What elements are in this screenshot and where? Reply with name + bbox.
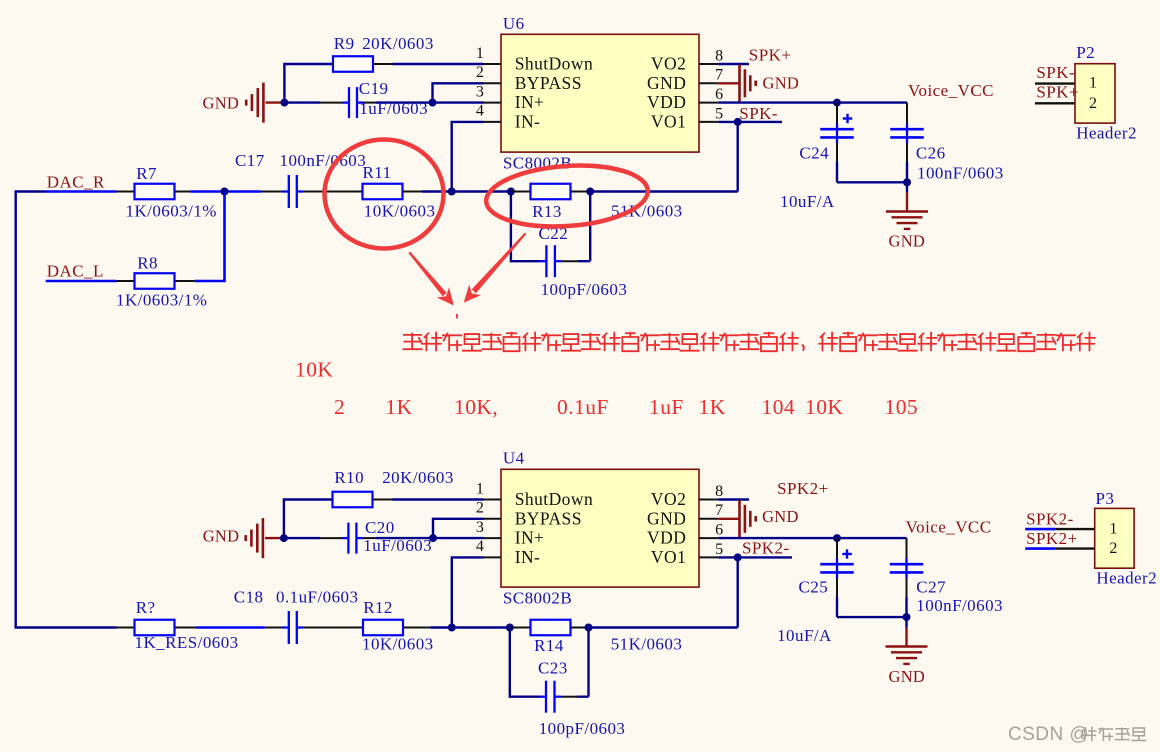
U4 pin 1: [484, 499, 502, 501]
svg-text:10K: 10K: [295, 358, 333, 382]
svg-text:DAC_R: DAC_R: [47, 172, 105, 191]
svg-text:1K/0603/1%: 1K/0603/1%: [116, 291, 207, 310]
resistor R11: [363, 184, 403, 200]
capacitor C26: [906, 103, 908, 124]
svg-text:CSDN @: CSDN @: [1008, 724, 1089, 745]
svg-text:1uF/0603: 1uF/0603: [363, 536, 432, 555]
wire R9 to pin1: [393, 63, 484, 65]
svg-text:10K: 10K: [805, 395, 843, 419]
svg-text:8: 8: [715, 483, 723, 500]
svg-text:C17: C17: [235, 151, 265, 170]
svg-text:1K: 1K: [385, 395, 412, 419]
IC U6 SC8002B: [501, 34, 699, 152]
node main-R7: [221, 188, 229, 196]
svg-text:4: 4: [476, 103, 484, 120]
svg-text:100nF/0603: 100nF/0603: [916, 596, 1003, 615]
wire cap bottoms: [837, 181, 907, 183]
U6 pin 8: [699, 63, 718, 65]
U6 pin 2: [484, 82, 502, 84]
earth ground GND (bottom): [905, 617, 907, 628]
wire VDD to caps: [718, 101, 907, 103]
wire R10 to pin1: [393, 498, 484, 500]
wire SPK+: [718, 63, 749, 65]
annotation chinese sentence: [403, 333, 423, 350]
svg-text:51K/0603: 51K/0603: [611, 634, 683, 653]
svg-text:R14: R14: [534, 636, 564, 655]
svg-text:100nF/0603: 100nF/0603: [917, 164, 1004, 183]
svg-text:C25: C25: [799, 578, 829, 597]
svg-text:DAC_L: DAC_L: [47, 262, 104, 281]
svg-text:6: 6: [715, 86, 723, 103]
svg-text:100pF/0603: 100pF/0603: [541, 280, 628, 299]
svg-text:SPK+: SPK+: [749, 45, 792, 64]
earth ground GND (top): [906, 182, 908, 192]
svg-text:C24: C24: [799, 143, 829, 162]
svg-text:SPK2-: SPK2-: [1026, 510, 1074, 529]
power ground GND (top left): [266, 101, 285, 103]
power ground GND (pin 7): [718, 82, 739, 84]
svg-text:VO2: VO2: [651, 54, 686, 74]
wire to IN-: [452, 122, 484, 192]
node R13 left: [507, 188, 515, 196]
svg-text:Header2: Header2: [1076, 123, 1137, 142]
node cap ground junction (bottom): [903, 613, 911, 621]
svg-text:2: 2: [1109, 540, 1117, 557]
svg-text:1uF/0603: 1uF/0603: [359, 99, 428, 118]
wire SPK2-: [718, 556, 792, 558]
svg-text:20K/0603: 20K/0603: [382, 468, 454, 487]
resistor R14: [510, 627, 531, 629]
U6 pin 3: [484, 102, 502, 104]
U6 pin 7: [699, 82, 718, 84]
resistor R9: [333, 56, 373, 72]
wire: [191, 190, 262, 193]
svg-text:0.1uF/0603: 0.1uF/0603: [276, 588, 358, 607]
resistor R8: [117, 280, 135, 282]
svg-text:P3: P3: [1096, 489, 1115, 508]
wire to IN+ pin3: [433, 537, 484, 539]
svg-text:100nF/0603: 100nF/0603: [280, 151, 367, 170]
node SPK- junction: [734, 118, 742, 126]
wire: [197, 626, 265, 629]
wire: [422, 190, 452, 192]
svg-text:GND: GND: [889, 667, 926, 686]
node IN- junction: [448, 188, 456, 196]
svg-text:6: 6: [715, 522, 723, 539]
svg-text:R13: R13: [532, 202, 562, 221]
wire SPK-: [718, 121, 782, 123]
resistor R13: [511, 191, 531, 193]
svg-text:P2: P2: [1076, 43, 1095, 62]
wire to SPK2-: [589, 626, 738, 628]
wire: [430, 626, 452, 628]
U4 pin 3: [484, 537, 502, 539]
wire cap bottoms: [837, 616, 907, 618]
svg-text:3: 3: [476, 519, 484, 536]
svg-text:1: 1: [1109, 520, 1117, 537]
svg-text:3: 3: [476, 83, 484, 100]
svg-text:1: 1: [476, 480, 484, 497]
node cap ground junction: [903, 178, 911, 186]
svg-text:8: 8: [715, 47, 723, 64]
wire SPK2+: [718, 498, 749, 500]
IC U4 SC8002B: [501, 469, 699, 587]
svg-text:10K/0603: 10K/0603: [364, 201, 436, 220]
U4 pin 5: [699, 556, 718, 558]
svg-text:IN+: IN+: [515, 92, 545, 112]
svg-text:GND: GND: [203, 527, 240, 546]
U4 pin 4: [484, 556, 502, 558]
node VDD junction (bottom): [833, 534, 841, 542]
power ground GND (pin 7 bottom): [718, 518, 739, 520]
capacitor C23 loop: [510, 628, 540, 697]
U6 pin 1: [484, 63, 502, 65]
node R14 right: [585, 624, 593, 632]
svg-text:GND: GND: [203, 93, 240, 112]
wire VDD to caps: [718, 537, 906, 539]
svg-text:1K: 1K: [699, 395, 726, 419]
svg-text:U6: U6: [503, 14, 525, 33]
svg-text:GND: GND: [762, 507, 799, 526]
svg-text:Voice_VCC: Voice_VCC: [908, 81, 994, 100]
svg-text:VDD: VDD: [647, 528, 686, 548]
wire to BYPASS pin2: [433, 83, 484, 102]
wire: [452, 190, 511, 192]
svg-text:SPK2+: SPK2+: [1026, 529, 1078, 548]
svg-text:5: 5: [715, 541, 723, 558]
svg-text:C23: C23: [538, 659, 568, 678]
svg-text:C26: C26: [916, 143, 946, 162]
node R14 left: [506, 624, 514, 632]
svg-text:5: 5: [715, 105, 723, 122]
svg-text:U4: U4: [503, 448, 525, 467]
svg-text:IN-: IN-: [515, 547, 541, 567]
U6 pin 6: [699, 102, 718, 104]
annotation ellipse around R13: [484, 160, 650, 231]
connector P2: [1035, 82, 1075, 84]
svg-text:20K/0603: 20K/0603: [362, 34, 434, 53]
svg-text:Voice_VCC: Voice_VCC: [906, 518, 992, 537]
node VDD junction: [833, 99, 841, 107]
svg-text:2: 2: [476, 500, 484, 517]
svg-text:104: 104: [762, 395, 796, 419]
wire left bus vertical: [14, 192, 16, 628]
U4 pin 6: [699, 537, 718, 539]
svg-text:BYPASS: BYPASS: [515, 73, 582, 93]
capacitor C24 polarized: [836, 103, 838, 124]
svg-text:2: 2: [1089, 95, 1097, 112]
svg-text:ShutDown: ShutDown: [515, 489, 593, 509]
svg-text:7: 7: [715, 67, 723, 84]
svg-text:R?: R?: [136, 598, 156, 617]
node R13 right: [586, 188, 594, 196]
resistor R10: [333, 492, 373, 508]
capacitor C17: [261, 191, 283, 193]
svg-text:105: 105: [885, 395, 919, 419]
svg-text:R11: R11: [363, 163, 392, 182]
svg-text:C19: C19: [359, 79, 389, 98]
wire DAC_R: [15, 190, 47, 192]
resistor R7: [117, 191, 135, 193]
wire to SPK-: [590, 190, 738, 192]
capacitor C22 loop: [511, 192, 540, 262]
node GND junction: [280, 99, 288, 107]
U4 pin 2: [484, 518, 502, 520]
capacitor C25 polarized: [836, 538, 838, 558]
connector P3: [1025, 528, 1055, 531]
svg-text:SPK-: SPK-: [1036, 63, 1075, 82]
svg-text:R7: R7: [136, 164, 157, 183]
svg-text:1K_RES/0603: 1K_RES/0603: [135, 633, 239, 652]
U4 pin 7: [699, 518, 718, 520]
wire to IN+ pin3: [433, 101, 484, 103]
plus sign C25: [842, 553, 852, 555]
svg-text:1: 1: [1089, 74, 1097, 91]
wire to BYPASS pin2: [433, 519, 484, 538]
svg-text:C20: C20: [365, 518, 395, 537]
svg-text:GND: GND: [647, 508, 686, 528]
wire DAC_L: [46, 280, 117, 283]
power ground GND (bottom left): [265, 537, 284, 539]
svg-text:GND: GND: [763, 74, 800, 93]
wire: [452, 626, 510, 628]
capacitor C27: [906, 538, 908, 558]
node GND junction (bottom): [280, 534, 288, 542]
svg-text:VO1: VO1: [651, 112, 686, 132]
svg-text:IN-: IN-: [515, 112, 541, 132]
U6 pin 4: [484, 121, 502, 123]
svg-text:SPK+: SPK+: [1036, 83, 1079, 102]
svg-text:0.1uF: 0.1uF: [557, 395, 609, 419]
node SPK2- junction: [734, 553, 742, 561]
svg-text:4: 4: [476, 538, 484, 555]
U4 pin 8: [699, 499, 718, 501]
svg-text:VO2: VO2: [651, 489, 686, 509]
capacitor C20: [284, 537, 320, 539]
wire to IN- pin4: [452, 557, 484, 627]
plus sign C24: [843, 117, 853, 119]
wire R9 left: [284, 64, 333, 103]
node BYPASS junction: [429, 99, 437, 107]
svg-text:BYPASS: BYPASS: [515, 508, 582, 528]
svg-text:IN+: IN+: [515, 528, 545, 548]
annotation arrow 1: [408, 252, 446, 297]
svg-text:7: 7: [715, 502, 723, 519]
svg-text:SC8002B: SC8002B: [503, 589, 572, 608]
capacitor C19: [284, 101, 320, 103]
wire bottom bus: [15, 626, 117, 628]
svg-text:SPK2-: SPK2-: [742, 539, 790, 558]
svg-text:1: 1: [476, 45, 484, 62]
svg-text:1uF: 1uF: [649, 395, 684, 419]
svg-text:C27: C27: [916, 578, 946, 597]
wire R8 to node: [195, 192, 225, 282]
svg-text:SPK2+: SPK2+: [777, 479, 829, 498]
svg-text:51K/0603: 51K/0603: [611, 201, 683, 220]
svg-text:2: 2: [334, 395, 345, 419]
svg-text:VO1: VO1: [651, 547, 686, 567]
U6 pin 5: [699, 121, 718, 123]
svg-text:C18: C18: [234, 588, 264, 607]
svg-text:10K/0603: 10K/0603: [362, 634, 434, 653]
svg-text:1K/0603/1%: 1K/0603/1%: [126, 201, 217, 220]
svg-text:GND: GND: [889, 232, 926, 251]
wire R10 left: [284, 500, 333, 539]
svg-text:R12: R12: [363, 598, 393, 617]
svg-text:2: 2: [476, 64, 484, 81]
resistor R12: [363, 620, 403, 636]
svg-text:Header2: Header2: [1096, 568, 1157, 587]
svg-text:10uF/A: 10uF/A: [777, 626, 832, 645]
svg-text:VDD: VDD: [647, 92, 686, 112]
svg-text:GND: GND: [647, 73, 686, 93]
node IN- junction (bottom): [448, 624, 456, 632]
svg-text:SPK-: SPK-: [739, 104, 778, 123]
resistor R?: [117, 627, 135, 629]
capacitor C18: [265, 627, 283, 629]
svg-text:ShutDown: ShutDown: [515, 54, 593, 74]
annotation tick: [456, 314, 458, 319]
svg-text:R9: R9: [334, 34, 355, 53]
svg-text:R8: R8: [137, 254, 158, 273]
node BYPASS junction (bottom): [429, 534, 437, 542]
svg-text:10uF/A: 10uF/A: [780, 192, 835, 211]
svg-text:R10: R10: [334, 468, 364, 487]
annotation arrow 2: [472, 233, 527, 294]
svg-text:100pF/0603: 100pF/0603: [539, 719, 626, 738]
svg-text:10K,: 10K,: [454, 395, 498, 419]
annotation ellipse around R11: [325, 140, 444, 249]
